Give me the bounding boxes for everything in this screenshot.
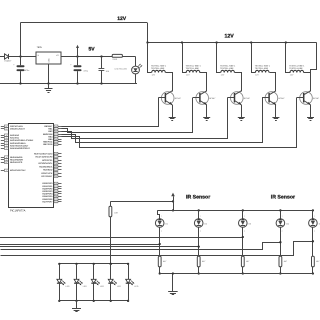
svg-text:+: +: [70, 64, 72, 67]
svg-text:RB5: RB5: [48, 138, 53, 141]
svg-text:12V: 12V: [255, 74, 259, 77]
svg-text:D3: D3: [249, 223, 252, 226]
svg-text:RA0/AN0: RA0/AN0: [10, 134, 20, 137]
svg-text:VO: VO: [56, 54, 59, 57]
svg-text:TEXTELL-KBE: TEXTELL-KBE: [220, 67, 234, 70]
svg-text:2: 2: [314, 229, 315, 232]
svg-text:LED: LED: [66, 285, 70, 288]
svg-text:RD2/PSP2: RD2/PSP2: [42, 187, 53, 190]
svg-text:RB7/PGD: RB7/PGD: [43, 143, 53, 146]
svg-text:10R: 10R: [114, 212, 118, 215]
svg-text:RD5/PSP5: RD5/PSP5: [42, 195, 53, 198]
svg-text:TEXTELL-KBE: TEXTELL-KBE: [255, 67, 269, 70]
svg-text:RC1/T1OSI/CCP2: RC1/T1OSI/CCP2: [36, 156, 54, 159]
svg-text:BC547: BC547: [244, 97, 251, 100]
svg-text:RD7/PSP7: RD7/PSP7: [42, 200, 53, 203]
svg-text:D2: D2: [205, 223, 208, 226]
svg-text:OSC1/CLKIN: OSC1/CLKIN: [10, 125, 23, 128]
svg-text:470u: 470u: [84, 70, 88, 73]
svg-text:MCLR/VPP/THV: MCLR/VPP/THV: [10, 169, 26, 172]
svg-text:RA3/AN3/VREF+: RA3/AN3/VREF+: [10, 142, 27, 145]
svg-text:RB4: RB4: [48, 135, 53, 138]
svg-text:RD3/PSP3: RD3/PSP3: [42, 190, 53, 193]
svg-text:2: 2: [200, 229, 201, 232]
svg-text:1: 1: [282, 215, 283, 218]
svg-text:1: 1: [161, 215, 162, 218]
svg-text:LED: LED: [134, 285, 138, 288]
svg-text:12V: 12V: [225, 34, 235, 40]
svg-text:RA5/AN4/SS/C2OUT: RA5/AN4/SS/C2OUT: [10, 147, 31, 150]
svg-text:RD4/PSP4: RD4/PSP4: [42, 193, 53, 196]
svg-text:1: 1: [244, 215, 245, 218]
svg-text:4k7: 4k7: [246, 260, 250, 263]
svg-text:RC0/T1OSO/T1CKI: RC0/T1OSO/T1CKI: [34, 152, 53, 155]
svg-text:RD0/PSP0: RD0/PSP0: [42, 182, 53, 185]
svg-text:OSC2/CLKOUT: OSC2/CLKOUT: [10, 128, 26, 131]
svg-text:220R: 220R: [112, 58, 117, 61]
svg-text:1: 1: [314, 215, 315, 218]
svg-text:4k7: 4k7: [163, 260, 167, 263]
svg-text:12V: 12V: [117, 16, 127, 22]
svg-text:12V: 12V: [221, 74, 225, 77]
svg-text:104: 104: [106, 70, 110, 73]
svg-text:TEXTELL-KBE: TEXTELL-KBE: [186, 67, 200, 70]
svg-text:RD1/PSP1: RD1/PSP1: [42, 185, 53, 188]
svg-text:RC3/SCK/SCL: RC3/SCK/SCL: [39, 162, 54, 165]
svg-text:IR Sensor: IR Sensor: [186, 195, 210, 201]
svg-text:RC6/TX/CK: RC6/TX/CK: [41, 172, 52, 175]
svg-text:BC547: BC547: [313, 97, 320, 100]
svg-text:RA1/AN1: RA1/AN1: [10, 137, 20, 140]
svg-text:LED-YELLOW: LED-YELLOW: [115, 68, 127, 71]
svg-text:RE0/AN5/RD: RE0/AN5/RD: [10, 156, 23, 159]
svg-text:TEXTELL-KBE: TEXTELL-KBE: [289, 67, 303, 70]
svg-text:RB3/PGM: RB3/PGM: [43, 133, 53, 136]
svg-text:12V: 12V: [290, 74, 294, 77]
svg-text:470u: 470u: [25, 69, 29, 72]
svg-text:PIC16F877A: PIC16F877A: [10, 210, 26, 213]
svg-text:1N4007: 1N4007: [4, 60, 12, 63]
svg-text:RE2/AN7/CS: RE2/AN7/CS: [10, 161, 23, 164]
svg-text:2: 2: [161, 229, 162, 232]
svg-text:12V: 12V: [152, 74, 156, 77]
svg-text:LED: LED: [83, 285, 87, 288]
svg-text:4k7: 4k7: [316, 260, 320, 263]
svg-text:1: 1: [200, 215, 201, 218]
svg-text:RB1: RB1: [48, 128, 53, 131]
svg-text:LED: LED: [100, 285, 104, 288]
svg-text:RA4/T0CKI/C1OUT: RA4/T0CKI/C1OUT: [10, 144, 29, 147]
svg-text:BC547: BC547: [278, 97, 285, 100]
svg-text:RA2/AN2/VREF-/CVREF: RA2/AN2/VREF-/CVREF: [10, 139, 34, 142]
svg-text:RC4/SDI/SDA: RC4/SDI/SDA: [39, 165, 53, 168]
svg-text:12V: 12V: [186, 74, 190, 77]
svg-text:RE1/AN6/WR: RE1/AN6/WR: [10, 159, 23, 162]
svg-text:VI: VI: [37, 54, 39, 57]
svg-text:2: 2: [244, 229, 245, 232]
svg-text:TEXTELL-KBE: TEXTELL-KBE: [151, 67, 165, 70]
svg-text:IR Sensor: IR Sensor: [271, 195, 295, 201]
svg-text:5V: 5V: [89, 46, 96, 52]
svg-text:GND: GND: [48, 58, 51, 63]
svg-text:7805: 7805: [37, 46, 43, 49]
svg-text:BC547: BC547: [175, 97, 182, 100]
svg-text:RB0/INT: RB0/INT: [44, 125, 53, 128]
svg-text:BC547: BC547: [209, 97, 216, 100]
svg-text:4k7: 4k7: [284, 260, 288, 263]
svg-text:D4: D4: [286, 223, 289, 226]
svg-text:RB6/PGC: RB6/PGC: [43, 141, 53, 144]
svg-text:4k7: 4k7: [202, 260, 206, 263]
svg-text:RB2: RB2: [48, 130, 53, 133]
svg-text:RC5/SDO: RC5/SDO: [43, 169, 53, 172]
svg-text:RD6/PSP6: RD6/PSP6: [42, 198, 53, 201]
svg-text:LED: LED: [117, 285, 121, 288]
svg-text:2: 2: [282, 229, 283, 232]
svg-text:RC2/CCP1: RC2/CCP1: [42, 159, 53, 162]
svg-text:+: +: [13, 64, 15, 67]
svg-text:D1: D1: [166, 223, 169, 226]
svg-text:RC7/RX/DT: RC7/RX/DT: [41, 175, 53, 178]
